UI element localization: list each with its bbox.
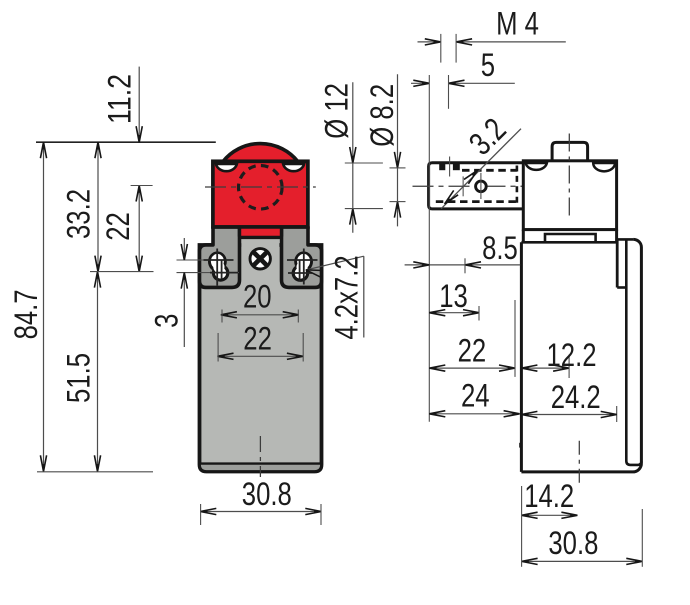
front view: switch body (grey case) — [200, 245, 322, 472]
front view: hidden roller circle (dashed) — [238, 166, 282, 210]
side view: body bottom edge — [521, 463, 641, 472]
side view: body left edge with small notch — [520, 242, 523, 472]
svg-text:14.2: 14.2 — [524, 478, 574, 514]
side view: rear flange inner edge — [626, 239, 641, 465]
dim 22 horizontal (body width ref) — [218, 355, 303, 357]
svg-text:51.5: 51.5 — [61, 353, 97, 403]
side view: cable entry centreline — [578, 441, 580, 484]
side view: head centreline — [568, 134, 570, 216]
hole centre extension line — [90, 271, 154, 273]
front view: right keyhole slot — [294, 251, 313, 271]
svg-text:33.2: 33.2 — [61, 189, 97, 239]
side view: head bottom plate with notch — [523, 228, 616, 231]
dim Ø 8.2 — [397, 74, 399, 226]
dim 12.2 — [521, 367, 569, 369]
side view: body top edge — [521, 241, 617, 244]
side view: head slot arcs — [526, 163, 547, 170]
svg-text:M 4: M 4 — [496, 5, 539, 41]
front view: bottom centreline — [259, 436, 261, 477]
svg-text:5: 5 — [481, 47, 495, 83]
label 4.2x7.2 slot size with leader — [306, 256, 364, 270]
svg-text:11.2: 11.2 — [102, 74, 138, 124]
svg-text:84.7: 84.7 — [8, 289, 44, 339]
front view: centre column patch — [241, 239, 279, 252]
roller axis extension tick — [131, 185, 153, 187]
svg-text:12.2: 12.2 — [547, 337, 597, 373]
svg-text:13: 13 — [439, 278, 468, 314]
dim 33.2 (top to hole centre) — [97, 142, 99, 271]
dim 5 — [411, 82, 429, 84]
side view: body silhouette — [521, 239, 641, 472]
bottom extension line — [37, 471, 153, 473]
svg-text:Ø 8.2: Ø 8.2 — [364, 84, 400, 147]
svg-text:3: 3 — [148, 314, 184, 328]
datum line at dome top — [36, 141, 216, 143]
front view: red dome (roller top) — [223, 144, 298, 162]
side view: hidden hub lines (dashed) — [462, 169, 517, 172]
svg-text:22: 22 — [243, 321, 272, 357]
front view: right keyhole crosshairs — [287, 259, 318, 261]
side view: roller lever arm — [429, 163, 524, 209]
svg-text:Ø 12: Ø 12 — [318, 83, 354, 139]
side view: 24.2 extension tick — [616, 406, 618, 422]
dim 24 — [429, 413, 519, 415]
dim M 4 — [418, 41, 441, 43]
side view: rear flange outer edge — [633, 239, 641, 463]
dim 20 (hole spacing) — [221, 314, 299, 316]
front view: red head box — [213, 161, 308, 227]
dim 22 vertical (roller axis to hole centre) — [138, 186, 140, 272]
svg-text:30.8: 30.8 — [548, 525, 598, 561]
dim 30.8 front (body width) — [200, 511, 321, 513]
front view: head centreline — [205, 186, 316, 188]
side view: M4 screw slot marks — [439, 163, 445, 170]
dim 84.7 (total height) — [43, 142, 45, 471]
dim 24.2 — [521, 414, 616, 416]
arm front face extension line (long) — [428, 75, 430, 422]
side view: head plunger block — [552, 142, 588, 160]
front view: left keyhole crosshairs + 3-dim extension lines — [177, 259, 234, 261]
dim Ø 12 — [352, 82, 354, 233]
svg-text:30.8: 30.8 — [242, 476, 292, 512]
side view: rear flange top edge — [617, 238, 633, 241]
side view: 3.2 hole circle — [476, 181, 487, 192]
dim 11.2 (dome top to roller axis) — [138, 67, 140, 143]
svg-text:8.5: 8.5 — [482, 230, 518, 266]
svg-text:24: 24 — [461, 377, 490, 413]
front view: left keyhole slot — [208, 251, 227, 271]
front view: right mounting ear — [282, 227, 322, 287]
dim 30.8 side — [522, 560, 643, 562]
dim 8.5 — [405, 264, 521, 266]
side view: body front-right edge — [616, 239, 619, 287]
front view: head right slot — [283, 164, 304, 171]
svg-text:22: 22 — [100, 212, 136, 241]
dim 3 (keyhole offset) — [183, 238, 185, 260]
side view: hidden arm/head joint (dashed vertical) — [516, 166, 519, 207]
side view: arm centreline — [413, 185, 530, 187]
svg-text:4.2x7.2: 4.2x7.2 — [329, 255, 365, 339]
svg-text:22: 22 — [458, 332, 487, 368]
front view: bottom cap strip — [200, 464, 322, 472]
front view: head left slot — [216, 164, 237, 171]
dim 13 — [429, 312, 479, 314]
dim 51.5 (hole centre to bottom) — [97, 272, 99, 472]
side view: head box — [523, 161, 616, 230]
front view: centre screw — [250, 249, 270, 269]
side view: grey hole axis line — [462, 176, 464, 196]
label 3.2 with oblique leader — [441, 129, 521, 209]
front view: red tongue below head — [240, 225, 282, 237]
dim 14.2 — [522, 514, 578, 516]
svg-text:20: 20 — [243, 279, 272, 315]
dim 22 side — [429, 367, 515, 369]
front view: left mounting ear — [200, 227, 240, 287]
svg-text:24.2: 24.2 — [551, 379, 601, 415]
